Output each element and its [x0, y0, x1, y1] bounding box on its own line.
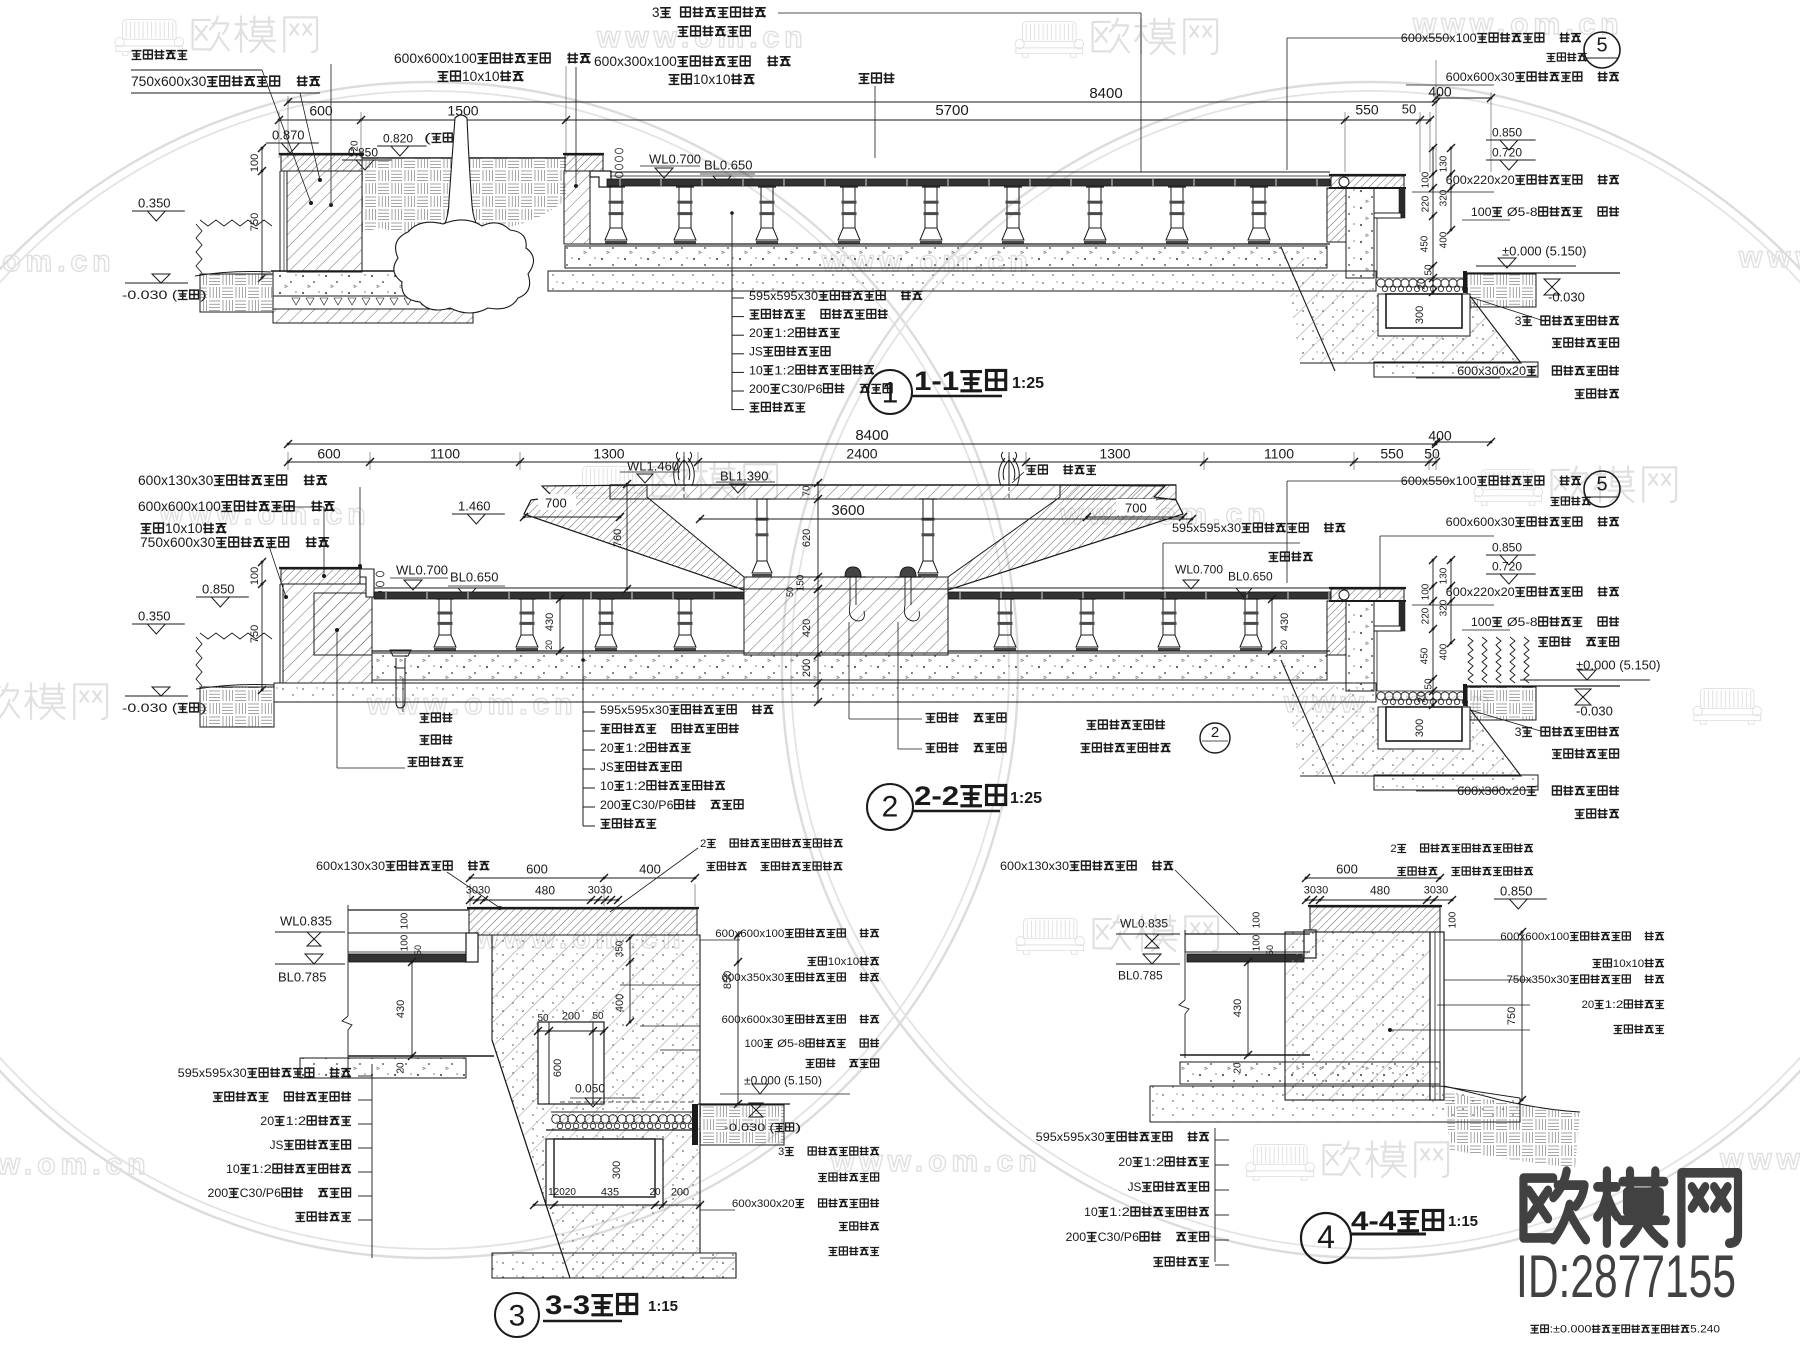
svg-text:150: 150: [796, 574, 807, 591]
svg-text:WL0.700: WL0.700: [1175, 563, 1223, 577]
svg-text:100: 100: [1252, 911, 1263, 928]
svg-text:10: 10: [600, 779, 614, 793]
svg-text:430: 430: [544, 613, 556, 631]
corner gravel bed: [1377, 279, 1385, 287]
svg-text:8400: 8400: [1089, 85, 1122, 102]
svg-text:600x600x100: 600x600x100: [138, 499, 221, 514]
label wash light: [1538, 638, 1548, 647]
svg-text:JS: JS: [600, 760, 614, 774]
watermark sofa+logo top-left: [115, 20, 184, 56]
svg-text:2: 2: [1390, 843, 1396, 855]
svg-text:0.720: 0.720: [1492, 560, 1522, 574]
2-2 left wall brick core: [314, 593, 372, 655]
svg-text:50: 50: [785, 587, 795, 597]
2-2 dim 400 right: [1436, 441, 1491, 443]
detail bubble 5: [1584, 32, 1620, 68]
corner cap slab 600x550x100: [1331, 589, 1404, 601]
svg-text:10: 10: [1084, 1205, 1098, 1219]
svg-text:WL0.835: WL0.835: [280, 913, 332, 928]
svg-text:WL0.700: WL0.700: [649, 151, 701, 166]
2-2 top dim chain 8400: [288, 443, 1436, 445]
1-1 break line zigzag: [200, 220, 272, 226]
svg-text:1:25: 1:25: [1010, 790, 1042, 807]
3-3 pool bottom line: [348, 1055, 494, 1057]
svg-text:1:2: 1:2: [774, 363, 795, 377]
2-2 wall vertical dims: [261, 562, 263, 690]
3-3 drain channel: [546, 1139, 663, 1205]
1-1 pool base slab: [565, 246, 1327, 268]
svg-text:300: 300: [611, 1161, 623, 1179]
svg-text:20: 20: [260, 1114, 274, 1128]
2-2 ground curve left: [196, 685, 274, 690]
svg-text:10x10: 10x10: [165, 521, 203, 536]
svg-text:1100: 1100: [430, 445, 460, 461]
3-3 ground line right: [698, 1103, 790, 1105]
2-2 saucer right wing: [948, 485, 1183, 590]
2-2 water grid label: [1087, 721, 1097, 730]
2-2 right pool floor band: [948, 587, 1330, 589]
4-4 big mass: [1285, 932, 1430, 1100]
svg-text:100: 100: [1471, 205, 1492, 219]
svg-text:480: 480: [1370, 884, 1390, 898]
svg-text:C30/P6: C30/P6: [240, 1186, 282, 1200]
corner footing: [1374, 775, 1538, 790]
corner bullnose circle: [1339, 177, 1349, 187]
leader 600x600x100: [330, 64, 332, 205]
corner brick wall: [1327, 188, 1346, 242]
2-2 left pool floor band: [374, 587, 744, 589]
svg-text:50: 50: [1402, 101, 1416, 116]
2-2 drain valve labels: [402, 678, 404, 712]
label: bevel2: [669, 75, 680, 85]
1-1 tree canopy blob: [394, 220, 534, 313]
svg-text:3-3: 3-3: [545, 1290, 590, 1320]
svg-text:5: 5: [1596, 35, 1607, 57]
1-1 bowtie level: [1544, 279, 1560, 287]
svg-text:BL0.650: BL0.650: [1228, 570, 1273, 584]
svg-text:220: 220: [1421, 607, 1432, 624]
svg-text:Ø5-8: Ø5-8: [1503, 615, 1538, 629]
1-1 ground line over soil: [362, 157, 566, 159]
3-3 gravel bed: [551, 1111, 694, 1113]
svg-text:50: 50: [537, 1013, 549, 1024]
2-2 coping small dims 100/100: [376, 571, 384, 576]
leader 750 stone: [300, 93, 320, 180]
2-2 right pool supports: [994, 599, 1016, 651]
label expansion anchor b: [1552, 750, 1562, 759]
svg-text:3: 3: [1515, 725, 1522, 739]
2-2 pool base slab: [372, 653, 1327, 680]
svg-text:0.850: 0.850: [1492, 126, 1522, 140]
svg-text:70: 70: [802, 485, 813, 497]
svg-text:20: 20: [1279, 640, 1289, 650]
svg-text:0.850: 0.850: [1492, 541, 1522, 555]
3-3 right leaders: [700, 939, 740, 941]
svg-text:-0.030: -0.030: [1576, 703, 1613, 718]
svg-text:±0.000 (5.150): ±0.000 (5.150): [744, 1074, 822, 1088]
watermark big circle right: [782, 82, 1800, 1258]
svg-text:430: 430: [1279, 613, 1291, 631]
1-1 pool floor joint ticks: [619, 179, 621, 186]
2-2 level -0.030 left: [125, 695, 188, 697]
watermark sofa+logo mid-right: [1474, 470, 1543, 506]
label expansion anchor: [1552, 339, 1562, 348]
1-1 left wall vertical dims 100/750: [261, 148, 263, 278]
svg-text:1:15: 1:15: [648, 1298, 678, 1315]
corner mass under: [1290, 706, 1521, 776]
svg-text:750x600x30: 750x600x30: [131, 74, 206, 89]
3-3 planter box: [538, 1022, 604, 1104]
corner gravel bed: [1377, 692, 1385, 700]
svg-text:1:2: 1:2: [625, 741, 646, 755]
2-2 soil weave left: [200, 687, 274, 727]
corner wash-light zigzag curtain: [1468, 637, 1473, 683]
svg-text:0.850: 0.850: [202, 581, 235, 596]
svg-text:3600: 3600: [831, 502, 864, 519]
3-3 bottom dims: [534, 1204, 700, 1206]
svg-text:4: 4: [1317, 1219, 1335, 1255]
svg-text:200: 200: [562, 1011, 580, 1023]
svg-text:130: 130: [1439, 567, 1450, 584]
watermark sofa+logo row3-center: [1016, 919, 1085, 955]
4-4 title bubble: [1301, 1213, 1351, 1263]
section 2-2 group: [122, 427, 1495, 828]
4-4 footing: [1150, 1086, 1520, 1122]
svg-text:50: 50: [1424, 445, 1440, 461]
svg-text:20: 20: [544, 640, 554, 650]
svg-text:-0.030: -0.030: [1548, 289, 1585, 304]
svg-text:3: 3: [652, 5, 660, 20]
corner waterproof lines: [1373, 631, 1375, 691]
2-2 vertical dims 420/200 in stem: [817, 589, 819, 702]
4-4 coping left step: [1304, 930, 1316, 958]
svg-text:12020: 12020: [548, 1187, 576, 1198]
svg-text:1:2: 1:2: [1109, 1205, 1130, 1219]
3-3 left break line: [347, 905, 349, 1016]
svg-text:5: 5: [1596, 474, 1607, 496]
svg-text:600x600x100: 600x600x100: [394, 51, 477, 66]
2-2 saucer top plate: [610, 485, 1176, 499]
4-4 under slab: [1180, 1062, 1440, 1084]
svg-text:130: 130: [1439, 155, 1450, 172]
svg-text:10x10: 10x10: [1613, 958, 1644, 970]
2-2 left pool supports: [434, 599, 456, 651]
svg-text:430: 430: [395, 1000, 407, 1018]
svg-text:1:2: 1:2: [774, 326, 795, 340]
svg-text:600x300x20: 600x300x20: [1457, 364, 1526, 378]
svg-text:400: 400: [1428, 427, 1452, 443]
svg-text:0.350: 0.350: [138, 195, 171, 210]
4-4 right leaders: [1444, 939, 1530, 941]
4-4 coping slab: [1310, 907, 1440, 932]
label finished purchase: [1575, 390, 1585, 399]
svg-text:200: 200: [671, 1187, 689, 1199]
section 3-3 group: [178, 838, 879, 1337]
1-1 soil weave left of footing: [200, 274, 273, 312]
svg-text:595x595x30: 595x595x30: [600, 703, 669, 717]
4-4 pool bottom line: [1180, 1054, 1310, 1056]
1-1 rubble hatch under footing: [273, 309, 473, 323]
svg-text:100: 100: [745, 1038, 764, 1050]
svg-text:5700: 5700: [935, 102, 968, 119]
svg-text:350: 350: [615, 940, 626, 957]
4-4 pool floor band: [1187, 954, 1304, 962]
svg-text:JS: JS: [749, 345, 763, 359]
svg-text:20: 20: [1118, 1155, 1132, 1169]
4-4 pool rim lines: [1185, 933, 1310, 935]
svg-text:600x130x30: 600x130x30: [316, 859, 385, 873]
svg-text:595x595x30: 595x595x30: [1036, 1130, 1105, 1144]
svg-text:435: 435: [601, 1187, 619, 1199]
svg-text:600x220x20: 600x220x20: [1446, 173, 1515, 187]
svg-text:600: 600: [526, 861, 548, 876]
svg-text:3030: 3030: [588, 885, 612, 897]
svg-text:300: 300: [1414, 719, 1426, 737]
2-2 bowtie level: [1575, 689, 1591, 697]
2-2 pool dims 430/20 left: [559, 599, 561, 651]
corner mass diagonal edge: [1281, 660, 1335, 784]
2-2 700 dims: [538, 494, 576, 510]
svg-text:200: 200: [208, 1186, 229, 1200]
svg-text:Ø5-8: Ø5-8: [774, 1038, 805, 1050]
svg-text:400: 400: [639, 861, 661, 876]
svg-text:550: 550: [1380, 445, 1404, 461]
svg-text:2400: 2400: [846, 445, 877, 461]
site logo OMW: [1523, 1171, 1738, 1243]
svg-text:0.870: 0.870: [272, 127, 305, 142]
svg-text:10: 10: [749, 363, 763, 377]
2-2 left leaders: [359, 487, 361, 566]
3-3 footing: [492, 1253, 736, 1278]
svg-text:1-1: 1-1: [914, 366, 959, 396]
svg-text:2: 2: [1211, 724, 1219, 741]
2-2 roof drain right: [900, 567, 916, 577]
3-3 coping left step: [466, 933, 478, 962]
svg-text:430: 430: [1232, 999, 1244, 1017]
2-2 fountain label: [1027, 466, 1037, 475]
svg-text:100: 100: [1421, 583, 1432, 600]
leader brick wall 2-2: [336, 630, 338, 768]
1-1 top dim chain 600/1500/5700/550/50: [279, 119, 1430, 121]
2-2 mid leader stack: [582, 599, 584, 822]
4-4 pool interior dim 430: [1247, 962, 1249, 1055]
svg-text:760: 760: [612, 529, 624, 547]
2-2 break zigzag left: [200, 633, 272, 639]
svg-text:Ø5-8: Ø5-8: [1503, 205, 1538, 219]
4-4 ground curve right: [1444, 1086, 1580, 1112]
svg-text:600x300x100: 600x300x100: [594, 54, 677, 69]
svg-text:420: 420: [801, 619, 813, 637]
svg-text:20: 20: [350, 140, 361, 152]
3-3 pool floor band: [349, 954, 466, 962]
4-4 right stone column: [1430, 932, 1444, 1100]
svg-text:0.850: 0.850: [1500, 883, 1533, 898]
corner footing: [1374, 362, 1538, 377]
watermark sofa+logo near 4-4 label: [1246, 1145, 1315, 1181]
svg-text:220: 220: [1421, 195, 1432, 212]
svg-text:700: 700: [1125, 500, 1147, 515]
svg-text:750: 750: [249, 625, 261, 643]
watermark sofa+logo top-center: [1015, 22, 1084, 58]
svg-text:750x600x30: 750x600x30: [140, 535, 215, 550]
2-2 left wall cap: [281, 569, 360, 584]
corner bullnose circle: [1339, 590, 1349, 600]
svg-text:300: 300: [1414, 306, 1426, 324]
svg-text:100: 100: [1421, 171, 1432, 188]
svg-text:20: 20: [600, 741, 614, 755]
2-2 fountain jet right: [1008, 452, 1010, 499]
svg-text:400: 400: [1428, 83, 1452, 99]
svg-text:20: 20: [1582, 999, 1595, 1011]
corner soil weave: [1467, 274, 1536, 307]
1-1 pool water line: [610, 171, 1330, 173]
label: expansion bolt: [678, 27, 689, 37]
svg-text:-0.030 (: -0.030 (: [122, 288, 178, 302]
corner soil weave: [1467, 687, 1536, 720]
svg-text:50: 50: [1265, 945, 1275, 955]
svg-text:0.820: 0.820: [383, 132, 413, 146]
2-2 saucer right wing edges: [948, 485, 1183, 590]
2-2 left pool bottom: [372, 650, 744, 652]
corner brick wall: [1327, 601, 1346, 655]
1-1 wall footing: [273, 271, 443, 296]
svg-text:600x130x30: 600x130x30: [138, 473, 213, 488]
1-1 level -0.030 far left: [125, 282, 188, 284]
svg-text:0.350: 0.350: [138, 608, 171, 623]
svg-text:600x600x30: 600x600x30: [1446, 515, 1515, 529]
2-2 vertical dim 760: [626, 484, 628, 589]
svg-text:www.om.cn: www.om.cn: [1738, 241, 1800, 274]
corner waterproof lines: [1373, 218, 1375, 278]
svg-text:20: 20: [749, 326, 763, 340]
svg-text:1: 1: [882, 376, 899, 409]
2-2 roof drain left: [845, 567, 861, 577]
2-2 saucer left wing edges: [524, 485, 744, 590]
1-1 soil weave field: [362, 158, 566, 234]
svg-text:550: 550: [1355, 101, 1379, 117]
svg-text:20: 20: [1417, 278, 1428, 290]
watermark sofa+logo mid-left: [575, 467, 644, 503]
svg-text:600: 600: [317, 445, 341, 461]
section 4-4 group: [1000, 843, 1664, 1266]
section 1-1 title bubble: [868, 370, 912, 414]
svg-text:JS: JS: [270, 1138, 284, 1152]
2-2 stem plate supports: [752, 499, 772, 577]
3-3 top dims: [470, 877, 695, 879]
svg-text:50: 50: [413, 945, 423, 955]
label: planting soil: [859, 74, 870, 84]
2-2 top dim chain segments: [288, 461, 1436, 463]
svg-text:C30/P6: C30/P6: [1098, 1230, 1140, 1244]
svg-text:10x10: 10x10: [462, 69, 500, 84]
svg-text:1:15: 1:15: [1448, 1213, 1478, 1230]
2-2 drain valve: [390, 650, 411, 668]
2-2 lower foundation band: [274, 683, 1376, 702]
svg-text:10x10: 10x10: [693, 72, 731, 87]
svg-text:-0.030 (: -0.030 (: [724, 1122, 775, 1134]
4-4 leader 600x130: [1175, 870, 1240, 935]
4-4 left text stack: [1214, 1128, 1216, 1262]
svg-text:1:2: 1:2: [1144, 1155, 1165, 1169]
2-2 left wall coping step stone: [360, 569, 374, 597]
3-3 under-pool slab: [300, 1058, 466, 1078]
svg-text:600x350x30: 600x350x30: [722, 972, 785, 984]
svg-text:600x600x100: 600x600x100: [1500, 931, 1569, 943]
4-4 dim 750: [1521, 932, 1523, 1100]
2-2 left wall body: [283, 584, 372, 683]
svg-text:0.720: 0.720: [1492, 146, 1522, 160]
corner vertical stone 600x220x20: [1399, 601, 1405, 631]
svg-text:www.om.cn: www.om.cn: [0, 1148, 151, 1181]
svg-text:1300: 1300: [593, 445, 624, 461]
3-3 leader 600x130: [447, 872, 500, 908]
svg-text:100: 100: [400, 912, 411, 929]
2-2 extension lines: [287, 452, 289, 470]
1-1 pool left wall: [564, 171, 590, 244]
watermark sofa right edge: [1693, 689, 1762, 725]
svg-text:3030: 3030: [466, 885, 490, 897]
1-1 tamped earth triangles: [292, 298, 300, 305]
svg-text:100: 100: [1471, 615, 1492, 629]
svg-text:1:2: 1:2: [286, 1114, 307, 1128]
3-3 pool rim lines: [348, 909, 469, 911]
leader planting soil: [874, 86, 876, 158]
svg-text:10x10: 10x10: [828, 956, 859, 968]
svg-text:595x595x30: 595x595x30: [1172, 521, 1241, 535]
1-1 pool floor tile band: [607, 179, 1330, 186]
svg-text:400: 400: [614, 994, 626, 1012]
corner drain box: [1378, 294, 1470, 336]
3-3 pool interior dim 430: [411, 962, 413, 1056]
svg-text:ID:2877155: ID:2877155: [1516, 1243, 1736, 1310]
svg-text:600x130x30: 600x130x30: [1000, 859, 1069, 873]
svg-text:1:2: 1:2: [251, 1162, 272, 1176]
svg-text:2-2: 2-2: [914, 781, 959, 811]
corner ledge stone 600x600x30: [1374, 213, 1401, 218]
corner ledge stone 600x600x30: [1374, 626, 1401, 631]
3-3 bowtie: [749, 1103, 763, 1110]
svg-text:1:2: 1:2: [1605, 999, 1624, 1011]
1-1 top dim chain 8400: [288, 101, 1436, 103]
3-3 soil weave right: [700, 1105, 784, 1145]
svg-text:C30/P6: C30/P6: [781, 382, 823, 396]
svg-text:600x300x20: 600x300x20: [732, 1198, 795, 1210]
svg-text:2: 2: [700, 838, 706, 850]
svg-text:750: 750: [1506, 1007, 1518, 1025]
1-1 mid leader stack: [731, 213, 733, 410]
svg-text:600x220x20: 600x220x20: [1446, 585, 1515, 599]
svg-text:200: 200: [600, 798, 621, 812]
svg-text:450: 450: [1420, 647, 1431, 664]
svg-text:1300: 1300: [1099, 445, 1130, 461]
bottom note: [1530, 1325, 1539, 1333]
corner cap slab 600x550x100: [1331, 176, 1404, 188]
svg-text:3: 3: [778, 1146, 784, 1158]
3-3 big mass: [492, 935, 736, 1278]
svg-text:BL0.785: BL0.785: [1118, 969, 1163, 983]
1-1 left wall body brick: [287, 171, 362, 272]
svg-text:WL1.460: WL1.460: [627, 458, 679, 473]
svg-text:200: 200: [1066, 1230, 1087, 1244]
svg-text:50: 50: [592, 1011, 604, 1022]
corner drain box: [1378, 707, 1470, 749]
leader 600x300x100: [575, 67, 577, 186]
3-3 planter dims 50/200/50: [538, 1030, 604, 1032]
section 1-1 group: [122, 5, 1495, 323]
2-2 dim 3600: [700, 518, 1192, 520]
corner vertical stone 600x220x20: [1399, 188, 1405, 218]
svg-text:3030: 3030: [1424, 885, 1448, 897]
